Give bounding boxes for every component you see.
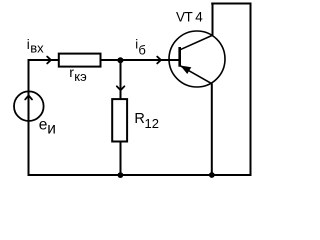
wire: top right horizontal [211, 3, 251, 5]
resistor R12 [112, 99, 127, 141]
current arrow i_б on base wire [157, 57, 161, 64]
wire: bottom rail [28, 174, 252, 176]
current arrow down toward R12 [117, 86, 125, 90]
node: base / R12 junction dot [117, 57, 123, 63]
wire: R12 branch lower [120, 142, 122, 177]
svg-text:кэ: кэ [74, 69, 87, 84]
transistor VT4: base bar [178, 47, 181, 67]
node: R12 / bottom rail junction dot [118, 172, 124, 178]
svg-text:б: б [138, 43, 145, 58]
transistor VT4: collector diagonal [180, 35, 212, 49]
svg-text:R: R [134, 111, 144, 127]
svg-text:е: е [39, 117, 48, 134]
svg-text:VT 4: VT 4 [176, 10, 203, 25]
EMF source e_и circle [14, 91, 44, 121]
wire: left vertical from input corner down to bottom rail [28, 59, 30, 176]
transistor VT4: emitter diagonal [181, 66, 212, 84]
wire: collector vertical up [212, 3, 214, 36]
current arrow i_вх on top wire [47, 57, 51, 64]
svg-text:и: и [47, 121, 56, 138]
resistor r_кэ [59, 54, 101, 67]
wire: top horizontal from input corner to transistor base [28, 59, 180, 61]
svg-text:вх: вх [30, 40, 44, 55]
wire: R12 branch upper [120, 60, 122, 100]
transistor VT4: body circle [169, 31, 225, 87]
wire: through EMF source [28, 92, 30, 122]
transistor VT4: emitter arrow (points toward base bar, PNP) [181, 66, 190, 73]
wire: right vertical down to bottom rail [250, 4, 252, 177]
EMF arrow up inside source [25, 95, 32, 99]
node: emitter / bottom rail junction dot [209, 172, 215, 178]
wire: emitter vertical down to bottom rail [211, 84, 213, 177]
svg-text:12: 12 [145, 116, 159, 131]
